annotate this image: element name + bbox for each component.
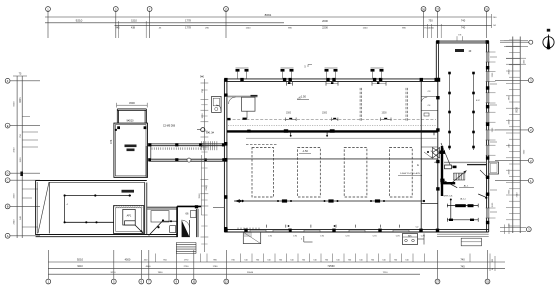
svg-text:9210: 9210 <box>111 272 117 274</box>
storehouse upper left wall <box>117 109 118 123</box>
mid dotted line <box>228 125 437 127</box>
svg-text:740: 740 <box>460 258 465 262</box>
llb wire mark <box>67 204 69 206</box>
svg-text:740: 740 <box>461 19 466 23</box>
grid line 27 tick (top) <box>437 11 439 38</box>
left dim vertical text 8391 <box>19 97 22 103</box>
stair room label <box>186 212 189 216</box>
svg-text:1500: 1500 <box>20 157 22 163</box>
stair room door arc <box>182 220 190 228</box>
elevation label -1.50 mid <box>299 150 311 154</box>
annex wall blobs <box>436 78 444 191</box>
strip door arc <box>421 97 427 103</box>
svg-text:1240: 1240 <box>246 27 252 29</box>
annex stair arrow <box>451 171 467 184</box>
distribution circle E <box>197 128 205 132</box>
grid line 9 tick (bottom) <box>175 250 177 279</box>
svg-text:5.5kW 15-2*16+E25: 5.5kW 15-2*16+E25 <box>400 173 420 175</box>
mid thick wall <box>227 130 438 132</box>
svg-text:C: C <box>7 178 9 182</box>
cable label 5.5kW <box>398 173 422 175</box>
right dim vertical text 9000 <box>515 107 518 113</box>
svg-text:7850: 7850 <box>158 272 164 274</box>
annex right wall windows <box>486 52 490 218</box>
window dim 1500 a <box>286 113 292 115</box>
grid circle 13 (top) <box>224 7 229 12</box>
roof vent at x377 <box>371 68 384 79</box>
svg-text:4500: 4500 <box>125 258 131 262</box>
annex wire a <box>449 73 451 150</box>
grid line 31 tick (top) <box>486 11 488 38</box>
dimension text 730 <box>428 19 433 23</box>
grid line 26 tick (top) <box>423 11 425 38</box>
svg-text:1500: 1500 <box>202 113 204 119</box>
svg-text:3516: 3516 <box>199 193 201 199</box>
grid circle 3 (right y80.3) <box>528 78 533 83</box>
grid line 13 tick (bottom) <box>225 250 227 279</box>
window dim 1500 c <box>381 113 387 115</box>
svg-text:3000: 3000 <box>509 169 511 175</box>
right dim small circle (grid 2 leader) <box>500 40 533 44</box>
grid circle A (left) <box>5 233 10 238</box>
annex window edge ticks <box>490 52 496 218</box>
svg-text:9210: 9210 <box>77 258 84 262</box>
equipment outline 1 (dashed) <box>252 148 274 198</box>
grid leader F (left) <box>10 80 40 82</box>
svg-text:9210: 9210 <box>77 265 83 268</box>
bottom dim text 740/745 right <box>460 258 465 269</box>
grid line 13 tick (top) <box>225 11 227 38</box>
grid circle 1 (top) <box>46 7 51 12</box>
grid circle 31 (bottom) <box>485 279 490 284</box>
llb distribution box <box>123 209 135 225</box>
right dim minor ticks <box>506 40 520 226</box>
grid circle 27 (bottom) <box>435 279 440 284</box>
grid leader C (left) <box>10 179 40 181</box>
storehouse vertical label D78 <box>110 139 113 144</box>
grid line 10 tick (bottom) <box>193 250 195 279</box>
hall wire y201 <box>234 200 424 202</box>
partition dashed b <box>406 88 408 121</box>
grid line 5 tick (bottom) <box>113 250 115 279</box>
grid leader A (left) <box>10 235 40 237</box>
dimension text 9210 <box>76 19 83 23</box>
machine room diag wire <box>478 194 487 199</box>
roof vent at x331 <box>325 68 338 79</box>
svg-text:8391: 8391 <box>19 97 22 103</box>
grid circle 2 (right y129.9) <box>528 127 533 132</box>
strip room labels <box>416 91 432 229</box>
storehouse name label <box>125 145 137 152</box>
machine room label blob <box>455 204 473 207</box>
llb wire lower lamps <box>64 221 98 223</box>
wall below stair <box>441 182 456 184</box>
svg-text:AL2-1: AL2-1 <box>460 198 466 201</box>
grid leader (right y180.7) <box>495 180 528 182</box>
grid line 27 tick (bottom) <box>437 250 439 279</box>
hall top wall columns <box>224 78 438 82</box>
hall left wall <box>224 79 227 232</box>
bottom dim texts small row <box>144 259 236 261</box>
grid circle 27 (top) <box>435 7 440 12</box>
annex wire a lamps <box>448 72 451 149</box>
grid circle 13 (bottom) <box>224 279 229 284</box>
dimension line (bottom, third) <box>48 273 420 275</box>
window bracket c <box>381 118 392 122</box>
grid line 5 tick (top) <box>115 11 117 38</box>
svg-text:E#1 3#: E#1 3# <box>206 131 214 134</box>
llb wire vertical <box>64 196 66 223</box>
svg-text:730: 730 <box>428 19 433 23</box>
right dim vertical text 3300 <box>509 119 511 125</box>
machine room v wire <box>450 199 452 221</box>
svg-text:745: 745 <box>460 264 465 268</box>
stairwell cable diagonal <box>441 143 452 168</box>
svg-text:1780: 1780 <box>213 266 219 268</box>
grid leader (right y129.9) <box>495 129 528 131</box>
grid circle B (left) <box>5 204 10 209</box>
svg-text:2000: 2000 <box>322 19 328 23</box>
machine room wire 2 <box>447 218 478 222</box>
svg-text:4#C: 4#C <box>476 100 480 102</box>
right dim vertical line a <box>512 37 514 234</box>
right dim vertical text 600 <box>509 222 511 226</box>
grid circle 7 (top) <box>147 7 152 12</box>
annex top corners <box>436 40 489 44</box>
left dim vertical text 750 <box>20 133 22 137</box>
annex NW dim line 4500 <box>117 101 148 107</box>
svg-text:D78: D78 <box>110 139 113 144</box>
grid line 7 tick (bottom) <box>148 250 150 279</box>
bottom dim row3 texts <box>111 272 389 274</box>
dimension text 1778 lower <box>185 25 191 29</box>
grid leader (right y160.6) <box>495 160 528 162</box>
svg-text:2750: 2750 <box>184 266 190 268</box>
svg-text:AL-1: AL-1 <box>464 185 469 188</box>
llb bottom wall <box>36 235 178 237</box>
svg-text:D: D <box>7 171 9 175</box>
window dim 1500 b <box>322 113 328 115</box>
bottom dim text 9210 <box>77 258 84 262</box>
svg-text:7210: 7210 <box>383 272 389 274</box>
dimension text row2 right <box>424 25 466 29</box>
left dim vtext extra <box>14 101 16 225</box>
bottom dim text 72560 <box>327 264 335 268</box>
llb porch slant <box>38 182 49 233</box>
machine room wire 1 <box>447 204 478 208</box>
svg-text:8691: 8691 <box>265 13 272 17</box>
middle room diagonal cable <box>149 219 164 235</box>
corridor bottom wall columns <box>148 158 225 161</box>
svg-text:B: B <box>7 205 9 209</box>
storehouse upper right wall <box>145 109 146 123</box>
llb top wall <box>36 181 147 183</box>
dimension text 2000 <box>322 19 328 23</box>
stairwell west wall thick <box>441 146 443 196</box>
grid circle 1 (right y180.7) <box>528 178 533 183</box>
left dim minor ticks <box>22 117 38 228</box>
svg-text:9#D20: 9#D20 <box>126 120 134 123</box>
annex label AL0 <box>476 100 480 102</box>
ramp rect outside <box>243 232 260 243</box>
grid leader D (left) <box>10 172 40 174</box>
grid circle 5 (top) <box>113 7 118 12</box>
hall wire end dots <box>239 200 425 202</box>
hall bottom windows <box>250 229 409 233</box>
roof vent at x287 <box>281 68 294 79</box>
center dim top label <box>200 76 205 79</box>
svg-text:1778: 1778 <box>185 25 191 29</box>
svg-text:1500: 1500 <box>286 113 292 115</box>
svg-text:E: E <box>7 124 9 128</box>
annex stair steps <box>453 173 465 180</box>
grid line 31 tick (bottom) <box>487 250 489 279</box>
annex right dim ticks <box>490 57 497 212</box>
svg-text:75 440 60: 75 440 60 <box>424 27 435 29</box>
llb right wall <box>145 183 147 236</box>
grid circle 1 (bottom) <box>46 279 51 284</box>
grid circle 7 (bottom) <box>146 279 151 284</box>
grid leader E (left) <box>10 125 40 127</box>
grid circle 3 (bottom right) <box>526 227 531 232</box>
hall nw wall blobs <box>224 94 230 121</box>
left dim black mark <box>20 172 23 177</box>
svg-text:4500: 4500 <box>146 266 152 268</box>
strip wall vertical <box>420 81 422 229</box>
svg-text:72560: 72560 <box>327 264 335 268</box>
llb electrical room walls <box>114 206 144 234</box>
grid circle E (left) <box>5 123 10 128</box>
svg-text:9210: 9210 <box>76 19 83 23</box>
svg-text:AP1: AP1 <box>127 215 132 218</box>
hall left wall columns <box>224 142 227 231</box>
grid line 1 tick (bottom) <box>47 250 49 279</box>
bottom-right box tail <box>418 234 425 245</box>
stair area labels <box>430 151 466 201</box>
right dim vertical line b <box>519 37 521 234</box>
svg-text:3060: 3060 <box>509 69 511 75</box>
svg-text:3300: 3300 <box>509 119 511 125</box>
grid leader (right y80.3) <box>495 79 528 81</box>
strip divider b <box>421 110 437 112</box>
grid line 7 tick (top) <box>149 11 151 38</box>
corridor top wall <box>148 144 225 146</box>
corridor steps hatch <box>202 141 217 150</box>
window bracket a <box>285 118 296 122</box>
center dim vtext 3516 <box>199 193 201 199</box>
annex label office <box>455 49 472 53</box>
bottom dim extra ticks <box>156 254 208 263</box>
svg-text:1500: 1500 <box>381 113 387 115</box>
canopy over door <box>227 96 258 120</box>
hall wire junction boxes <box>282 199 380 202</box>
storehouse upper top wall <box>117 109 146 110</box>
llb wire label <box>122 190 135 193</box>
llb porch left wall <box>36 181 38 236</box>
storehouse lamp dot <box>115 129 117 131</box>
label E#1 <box>206 131 214 134</box>
annex apron line <box>437 234 489 236</box>
upper room dashed dim line <box>228 118 436 120</box>
roof vent at x242 <box>236 68 249 79</box>
bowtie symbol <box>433 148 440 159</box>
bottom bracket symbol <box>301 236 313 242</box>
right edge dim ticks (top) <box>492 14 498 28</box>
dimension text 740a <box>461 19 466 23</box>
svg-text:WTH 2.2k: WTH 2.2k <box>444 196 453 198</box>
hall bottom wall <box>224 230 488 232</box>
svg-text:23040: 23040 <box>247 272 254 274</box>
sink fixture outside wall <box>212 96 222 112</box>
annex main left wall <box>437 81 439 229</box>
llb wire upper <box>65 195 131 197</box>
annex-corridor right wall <box>146 146 151 177</box>
svg-text:9000: 9000 <box>515 107 518 113</box>
left dim top tick with 75 text <box>13 73 27 77</box>
llb electrical room hatch <box>114 206 143 208</box>
grid circle 6 (bottom) <box>139 279 144 284</box>
annex left wall <box>436 41 438 81</box>
svg-text:-1.50: -1.50 <box>302 150 308 153</box>
door arc hall nw <box>229 97 236 104</box>
hall bottom window labels <box>268 235 426 237</box>
center dim vtext 2340 <box>206 185 208 191</box>
middle room closet <box>170 226 176 233</box>
annex exterior pad <box>461 238 481 246</box>
llb wire upper lamps <box>64 194 131 196</box>
hall bottom wall columns <box>224 229 439 233</box>
svg-text:445: 445 <box>116 26 121 29</box>
svg-text:9#0: 9#0 <box>200 76 205 79</box>
hall bottom window cluster <box>238 228 259 230</box>
grid circle 31 (top) <box>484 7 489 12</box>
storehouse label 9#D20 <box>126 120 134 123</box>
grid leader B (left) <box>10 205 40 207</box>
mid wall boxes <box>247 129 334 132</box>
corridor label C2-M5 <box>163 125 176 128</box>
cable below stair <box>444 180 474 187</box>
annex wire b lamps <box>472 72 475 149</box>
storehouse corner columns <box>117 126 146 129</box>
annex dist boxes <box>434 151 456 169</box>
right dim top ticks <box>504 40 528 64</box>
dimension text 2200 <box>322 25 328 29</box>
dimension text 1778 upper <box>185 19 191 23</box>
annex right wall columns <box>486 66 489 224</box>
svg-text:2340: 2340 <box>206 185 208 191</box>
center dim vertical line <box>203 79 205 252</box>
window bracket b <box>331 118 338 122</box>
llb box arrow <box>135 225 143 233</box>
stair room top wall <box>177 205 201 208</box>
hall top wall <box>224 79 437 82</box>
bottom dim dense texts <box>244 259 409 261</box>
right dim vtext extra <box>509 59 526 194</box>
dimension line (bottom, second) <box>48 267 505 269</box>
grid circle 2 (right y160.6) <box>528 158 533 163</box>
grid circle F (left) <box>5 78 10 83</box>
annex wire b <box>473 73 475 150</box>
grid circle C (left) <box>5 178 10 183</box>
middle room inner window <box>151 211 169 222</box>
corridor hatch band <box>152 147 200 149</box>
svg-text:740: 740 <box>461 25 466 29</box>
right dim bottom ticks <box>500 225 526 235</box>
svg-text:C2-M5 D56: C2-M5 D56 <box>163 125 176 128</box>
left dim vertical text 150 <box>20 157 22 163</box>
svg-text:4740: 4740 <box>14 147 16 153</box>
center dim vtext 750 <box>202 88 204 92</box>
annex right wall <box>487 41 489 232</box>
grid line 6 tick (bottom) <box>140 250 142 279</box>
corridor lamp circle <box>187 158 191 162</box>
hall thin line y158.8 <box>227 158 437 160</box>
strip divider c <box>421 146 437 148</box>
svg-text:2200: 2200 <box>322 25 328 29</box>
grid circle D (left) <box>5 171 10 176</box>
exterior steps <box>176 243 196 254</box>
partition dashed a <box>360 88 362 121</box>
svg-text:-1.50: -1.50 <box>300 95 306 99</box>
stair room right wall <box>197 209 199 237</box>
stair room inner box <box>191 211 197 218</box>
llb wire lower <box>65 221 114 223</box>
center dim line second <box>200 155 202 215</box>
strip divider a <box>421 96 437 98</box>
equipment outline 3 (dashed) <box>344 148 367 198</box>
svg-text:1240: 1240 <box>363 27 369 29</box>
bottom dim window ticks <box>241 254 471 263</box>
right dim vertical text 3060 <box>509 69 511 75</box>
stair room left wall <box>176 206 178 237</box>
bottom-right equipment box <box>403 234 418 245</box>
corridor bottom wall <box>149 159 227 161</box>
left dim vertical line a <box>16 76 18 238</box>
cable label E <box>417 164 419 167</box>
hall bottom wall dots <box>267 225 400 228</box>
bottom right edge ticks <box>490 254 495 272</box>
svg-text:1778: 1778 <box>185 19 191 23</box>
svg-text:2940: 2940 <box>14 219 16 225</box>
extra grid ticks (top) <box>118 21 441 38</box>
strip divider d <box>421 202 437 204</box>
top dim extra texts <box>159 27 407 29</box>
exterior stair box <box>489 162 499 174</box>
llb box label <box>127 215 132 218</box>
grid circle 10 (bottom) <box>191 279 196 284</box>
mid wall drop ticks <box>290 132 434 137</box>
equipment outline 2 (dashed) <box>298 148 321 198</box>
strip small marks <box>424 113 432 158</box>
dimension line (top, second) <box>45 22 284 24</box>
right dim vertical text 7340 <box>516 192 518 198</box>
center dim extra ticks <box>201 90 207 244</box>
equipment top dash line <box>246 143 278 145</box>
stair landing edge <box>444 162 486 164</box>
grid circle 26 (top) <box>421 7 426 12</box>
dimension text 1510 <box>131 19 137 23</box>
left dim vertical text 640 <box>20 215 22 219</box>
svg-text:A: A <box>7 234 9 238</box>
grid circle 5 (bottom) <box>111 279 116 284</box>
equipment outline 4 (dashed) <box>390 148 413 198</box>
hall wire arrow left <box>235 199 244 202</box>
center dim vtext 1500 <box>202 113 204 119</box>
left dim vertical line b <box>21 76 23 238</box>
middle room wire <box>163 220 177 222</box>
north arrow needle <box>547 34 551 50</box>
dimension text row2 445-438 <box>116 26 136 29</box>
